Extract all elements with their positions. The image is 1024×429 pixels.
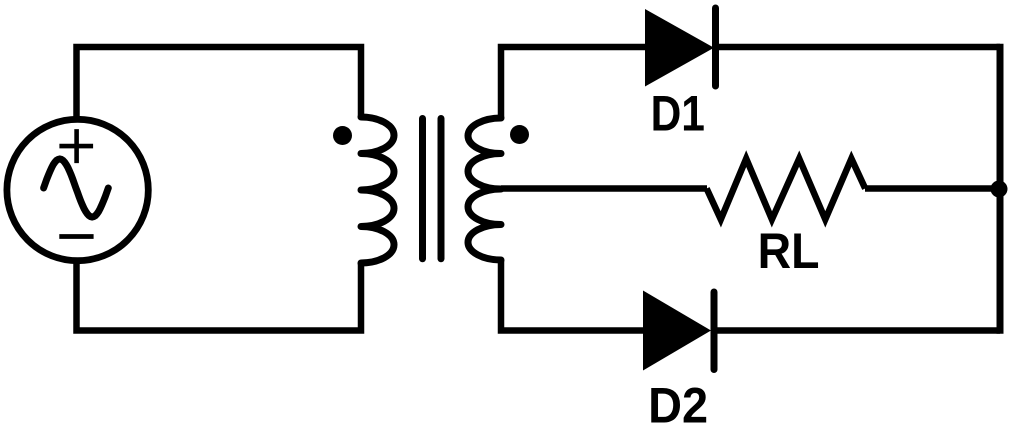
label D1 <box>651 85 705 141</box>
diode D1 triangle <box>645 9 714 87</box>
transformer T1 secondary winding (4 loops, bulge left) <box>468 118 501 260</box>
transformer T1 primary winding (4 loops, bulge right) <box>361 117 394 263</box>
resistor RL zigzag <box>707 159 866 220</box>
svg-text:D1: D1 <box>651 85 705 141</box>
wire: primary loop top (source top to primary winding) <box>77 47 362 120</box>
AC source V1 circle <box>7 119 148 260</box>
AC source sine wave <box>44 159 109 217</box>
phase dot secondary <box>510 125 529 144</box>
wire: center tap to resistor <box>501 185 707 192</box>
wire: D2 to right rail <box>714 327 1000 334</box>
diode D2 triangle <box>643 291 711 371</box>
junction node dot <box>991 181 1008 198</box>
svg-text:D2: D2 <box>648 378 708 429</box>
wire: secondary top stub <box>501 47 645 118</box>
wire: secondary bottom stub <box>501 260 643 331</box>
wire: D1 to right rail <box>716 44 1001 51</box>
AC source plus sign <box>59 129 93 163</box>
phase dot primary <box>333 126 352 145</box>
AC source minus sign <box>59 234 93 239</box>
wire: primary loop bottom <box>77 260 362 331</box>
label D2 <box>648 378 708 429</box>
diode D2 cathode bar <box>711 292 718 370</box>
transformer core line 1 <box>419 119 426 259</box>
wire: right rail vertical <box>997 44 1004 334</box>
wire: resistor to junction <box>865 185 1000 192</box>
svg-text:RL: RL <box>758 223 820 279</box>
label RL <box>758 223 820 279</box>
transformer core line 2 <box>438 119 445 259</box>
diode D1 cathode bar <box>712 8 719 86</box>
